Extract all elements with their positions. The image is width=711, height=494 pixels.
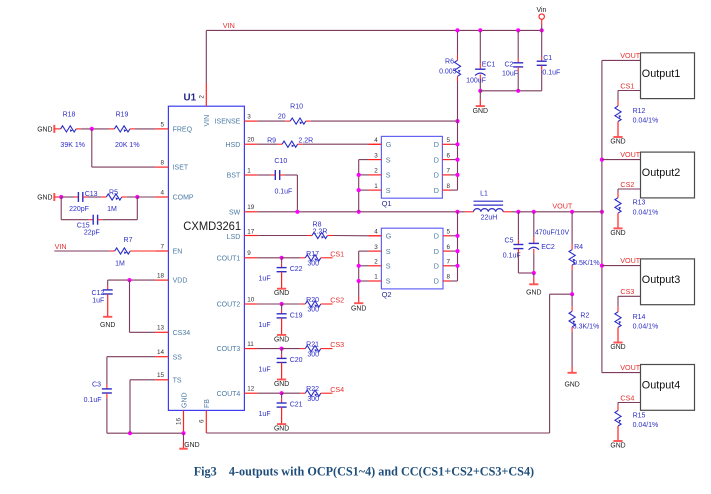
junction bbox=[455, 158, 459, 162]
svg-text:3: 3 bbox=[374, 152, 378, 159]
resistor R20 bbox=[305, 297, 321, 314]
svg-text:15: 15 bbox=[157, 372, 165, 379]
Q2 pin stub bbox=[369, 265, 382, 267]
svg-text:6: 6 bbox=[447, 244, 451, 251]
junction bbox=[280, 302, 284, 306]
wire bbox=[321, 392, 333, 394]
svg-text:L1: L1 bbox=[480, 191, 488, 198]
wire bbox=[457, 82, 459, 121]
svg-text:1uF: 1uF bbox=[259, 322, 271, 329]
svg-text:0.04/1%: 0.04/1% bbox=[633, 209, 659, 216]
pin 12 stub bbox=[244, 392, 257, 394]
title caption bbox=[194, 463, 534, 478]
junction bbox=[478, 89, 482, 93]
junction bbox=[295, 210, 299, 214]
wire (FB net) bbox=[549, 294, 551, 433]
svg-text:22pF: 22pF bbox=[84, 229, 100, 236]
svg-text:12: 12 bbox=[247, 386, 255, 393]
output block Output2 bbox=[641, 152, 695, 198]
junction bbox=[455, 173, 459, 177]
junction bbox=[570, 210, 574, 214]
wire bbox=[517, 71, 519, 90]
wire bbox=[617, 307, 619, 312]
pin 18 stub bbox=[155, 279, 168, 281]
wire bbox=[571, 327, 573, 332]
capacitor C12 bbox=[91, 290, 112, 305]
junction bbox=[600, 264, 604, 268]
ground (under EC2) bbox=[526, 273, 541, 296]
ground (under C20) bbox=[274, 363, 289, 389]
wire bbox=[457, 30, 459, 54]
svg-text:C15: C15 bbox=[77, 222, 90, 229]
output block Output4 bbox=[641, 365, 695, 411]
svg-text:1uF: 1uF bbox=[259, 411, 271, 418]
wire bbox=[479, 63, 481, 69]
junction bbox=[90, 127, 94, 131]
junction bbox=[128, 431, 132, 435]
capacitor C1 bbox=[537, 55, 561, 77]
wire bbox=[60, 197, 62, 220]
wire (Q2 source bus) bbox=[358, 251, 360, 296]
svg-text:CS1: CS1 bbox=[330, 249, 344, 258]
Vin terminal bbox=[536, 7, 546, 25]
wire (Output2 VOUT feed) bbox=[602, 159, 641, 161]
svg-text:D: D bbox=[434, 247, 439, 256]
Q1 pin stub bbox=[369, 174, 382, 176]
wire bbox=[517, 212, 519, 240]
svg-text:G: G bbox=[386, 140, 392, 149]
wire bbox=[281, 304, 283, 310]
wire bbox=[122, 196, 127, 198]
net label CS2 bbox=[330, 296, 344, 305]
svg-text:R2: R2 bbox=[580, 312, 589, 319]
junction bbox=[570, 292, 574, 296]
svg-text:COUT4: COUT4 bbox=[217, 391, 241, 398]
resistor R4 bbox=[569, 244, 600, 267]
svg-text:300: 300 bbox=[307, 351, 319, 358]
wire bbox=[130, 331, 156, 333]
junction bbox=[357, 188, 361, 192]
wire bbox=[54, 128, 60, 130]
svg-text:VOUT: VOUT bbox=[620, 150, 641, 159]
wire bbox=[479, 75, 481, 80]
Q1 gate pin stub bbox=[369, 143, 382, 145]
Q1 pin stub bbox=[442, 189, 450, 191]
junction bbox=[455, 249, 459, 253]
wire (Output4 VOUT feed) bbox=[602, 372, 641, 374]
wire bbox=[206, 29, 541, 31]
svg-text:FB: FB bbox=[204, 399, 211, 408]
wire bbox=[533, 212, 535, 238]
wire bbox=[303, 143, 369, 145]
svg-text:R17: R17 bbox=[306, 251, 319, 258]
wire bbox=[74, 196, 78, 198]
U1 pin name GND (pin 16) bbox=[181, 392, 188, 408]
wire (CS3 sense) bbox=[618, 295, 641, 297]
svg-text:SS: SS bbox=[173, 354, 183, 361]
svg-text:7: 7 bbox=[447, 259, 451, 266]
resistor R14 bbox=[615, 312, 658, 331]
wire bbox=[107, 280, 109, 285]
svg-text:BST: BST bbox=[227, 173, 241, 180]
svg-text:18: 18 bbox=[157, 273, 165, 280]
svg-text:GND: GND bbox=[274, 336, 289, 343]
svg-text:D: D bbox=[434, 277, 439, 286]
net label VOUT (Output1) bbox=[620, 51, 641, 60]
svg-text:C2: C2 bbox=[504, 61, 513, 68]
wire bbox=[457, 55, 459, 61]
U1 pin number 2 bbox=[200, 95, 206, 99]
svg-text:CS4: CS4 bbox=[620, 393, 634, 402]
wire bbox=[617, 405, 619, 410]
wire bbox=[503, 211, 511, 213]
junction bbox=[357, 210, 361, 214]
wire bbox=[109, 128, 114, 130]
junction bbox=[455, 28, 459, 32]
ground (left of R18) bbox=[37, 125, 54, 133]
svg-text:VIN: VIN bbox=[55, 242, 67, 251]
wire bbox=[129, 380, 131, 433]
svg-text:0.005: 0.005 bbox=[439, 68, 457, 75]
wire (VOUT node) bbox=[512, 211, 602, 213]
svg-text:GND: GND bbox=[610, 442, 625, 449]
Q1 pin stub bbox=[442, 159, 450, 161]
wire bbox=[257, 257, 281, 259]
net label CS3 bbox=[620, 287, 634, 296]
resistor R8 bbox=[312, 221, 328, 238]
wire bbox=[136, 197, 138, 220]
ground (under R14) bbox=[610, 327, 625, 351]
transistor Q2 bbox=[381, 228, 443, 299]
wire bbox=[106, 357, 108, 385]
wire bbox=[81, 128, 109, 130]
svg-text:10: 10 bbox=[247, 296, 255, 303]
wire bbox=[571, 245, 573, 250]
svg-text:20: 20 bbox=[278, 114, 286, 121]
svg-text:GND: GND bbox=[181, 392, 188, 408]
wire bbox=[517, 249, 519, 254]
capacitor C3 bbox=[84, 382, 112, 405]
svg-text:C12: C12 bbox=[91, 290, 104, 297]
wire bbox=[281, 399, 283, 403]
wire (CS1 sense) bbox=[618, 90, 641, 92]
Q1 pin stub bbox=[442, 143, 450, 145]
Q1 pin stub bbox=[369, 189, 382, 191]
wire (Output3 VOUT feed) bbox=[602, 265, 641, 267]
svg-text:S: S bbox=[386, 247, 391, 256]
pin 2 stub bbox=[205, 84, 207, 107]
svg-text:1M: 1M bbox=[115, 260, 125, 267]
svg-text:R4: R4 bbox=[574, 244, 583, 251]
junction bbox=[600, 210, 604, 214]
wire bbox=[257, 348, 281, 350]
svg-text:S: S bbox=[386, 262, 391, 271]
resistor R22 bbox=[305, 386, 321, 403]
U1 pin name VIN (pin 2) bbox=[204, 115, 211, 127]
wire bbox=[451, 250, 458, 252]
svg-text:Output1: Output1 bbox=[642, 68, 680, 80]
svg-text:5: 5 bbox=[447, 229, 451, 236]
pin 4 stub bbox=[155, 196, 168, 198]
inductor L1 bbox=[474, 191, 504, 222]
svg-text:D: D bbox=[434, 171, 439, 180]
svg-text:GND: GND bbox=[37, 126, 52, 133]
wire bbox=[87, 196, 101, 198]
junction bbox=[127, 278, 131, 282]
ground (under R2) bbox=[564, 367, 579, 389]
wire bbox=[271, 174, 275, 176]
wire (Q1 drain bus) bbox=[457, 121, 459, 190]
pin 15 stub bbox=[155, 379, 168, 381]
U1 left pin names bbox=[173, 127, 194, 385]
svg-text:SW: SW bbox=[229, 209, 241, 216]
transistor Q1 bbox=[381, 136, 442, 208]
wire bbox=[541, 57, 543, 61]
capacitor C19 bbox=[259, 312, 303, 329]
resistor R13 bbox=[615, 198, 658, 217]
svg-text:R15: R15 bbox=[633, 413, 646, 420]
svg-text:EC1: EC1 bbox=[482, 61, 496, 68]
junction bbox=[516, 28, 520, 32]
wire bbox=[480, 90, 541, 92]
svg-text:14: 14 bbox=[157, 349, 165, 356]
Q1 pin stub bbox=[369, 159, 382, 161]
svg-text:CS2: CS2 bbox=[620, 180, 634, 189]
svg-text:Fig3 4-outputs with OCP(CS1: Fig3 4-outputs with OCP(CS1~4) and CC(CS… bbox=[194, 463, 534, 478]
wire bbox=[130, 379, 155, 381]
svg-text:C1: C1 bbox=[543, 55, 552, 62]
svg-text:R22: R22 bbox=[306, 386, 319, 393]
wire bbox=[281, 263, 283, 267]
wire bbox=[457, 76, 459, 82]
pin 1 stub bbox=[244, 174, 257, 176]
svg-text:2.2R: 2.2R bbox=[313, 229, 328, 236]
svg-text:TS: TS bbox=[173, 377, 182, 384]
junction bbox=[357, 279, 361, 283]
svg-text:C21: C21 bbox=[290, 402, 303, 409]
wire bbox=[617, 189, 619, 193]
net label CS4 bbox=[620, 393, 634, 402]
ground (under EC1) bbox=[473, 91, 488, 115]
svg-text:COUT2: COUT2 bbox=[217, 302, 241, 309]
wire bbox=[281, 258, 283, 264]
wire bbox=[127, 196, 138, 198]
wire bbox=[107, 432, 184, 434]
Q1 pin stub bbox=[442, 174, 450, 176]
wire bbox=[257, 392, 281, 394]
svg-text:300: 300 bbox=[307, 307, 319, 314]
wire bbox=[517, 59, 519, 63]
svg-text:5: 5 bbox=[160, 121, 164, 128]
svg-text:S: S bbox=[386, 155, 391, 164]
svg-text:COUT3: COUT3 bbox=[217, 346, 241, 353]
svg-text:0.04/1%: 0.04/1% bbox=[633, 422, 659, 429]
svg-text:VOUT: VOUT bbox=[620, 363, 641, 372]
capacitor C15 bbox=[77, 215, 100, 237]
svg-text:VOUT: VOUT bbox=[552, 202, 573, 211]
svg-text:8: 8 bbox=[447, 274, 451, 281]
svg-text:1uF: 1uF bbox=[259, 367, 271, 374]
svg-text:GND: GND bbox=[526, 289, 541, 296]
wire (VOUT bus) bbox=[601, 60, 603, 372]
svg-text:GND: GND bbox=[351, 306, 366, 313]
svg-text:20K 1%: 20K 1% bbox=[115, 142, 140, 149]
wire bbox=[300, 257, 305, 259]
svg-text:R8: R8 bbox=[313, 221, 322, 228]
svg-text:3: 3 bbox=[374, 244, 378, 251]
svg-text:ISENSE: ISENSE bbox=[215, 119, 241, 126]
wire bbox=[91, 129, 93, 167]
svg-text:CXMD3261: CXMD3261 bbox=[183, 219, 241, 233]
wire bbox=[281, 393, 283, 399]
svg-text:R9: R9 bbox=[267, 137, 276, 144]
wire bbox=[311, 120, 458, 122]
wire bbox=[571, 294, 573, 306]
resistor R5 bbox=[106, 189, 122, 213]
wire bbox=[92, 166, 156, 168]
output block Output3 bbox=[641, 259, 695, 305]
svg-text:17: 17 bbox=[247, 229, 255, 236]
svg-text:300: 300 bbox=[307, 261, 319, 268]
svg-text:D: D bbox=[434, 155, 439, 164]
wire bbox=[451, 174, 458, 176]
junction bbox=[540, 28, 544, 32]
wire (Q1 source bus) bbox=[358, 160, 360, 212]
svg-text:GND: GND bbox=[610, 230, 625, 237]
wire bbox=[61, 196, 74, 198]
net label VIN bbox=[223, 21, 235, 30]
wire bbox=[285, 120, 290, 122]
junction bbox=[516, 210, 520, 214]
pin 6 stub bbox=[205, 410, 207, 433]
wire (Output1 VOUT feed) bbox=[602, 59, 641, 61]
svg-text:CS3: CS3 bbox=[620, 287, 634, 296]
ground (under R15) bbox=[610, 426, 625, 449]
U1 pin name FB (pin 6) bbox=[204, 399, 211, 408]
svg-text:FREQ: FREQ bbox=[173, 127, 193, 134]
svg-text:13: 13 bbox=[157, 325, 165, 332]
svg-text:11: 11 bbox=[247, 341, 254, 348]
resistor R18 bbox=[60, 112, 85, 150]
svg-text:R13: R13 bbox=[633, 200, 646, 207]
svg-text:CS1: CS1 bbox=[620, 81, 634, 90]
svg-text:3.3K/1%: 3.3K/1% bbox=[573, 323, 599, 330]
svg-text:GND: GND bbox=[274, 290, 289, 297]
svg-text:S: S bbox=[386, 186, 391, 195]
svg-text:10uF: 10uF bbox=[502, 70, 518, 77]
ground (under C19) bbox=[274, 318, 289, 344]
svg-text:EN: EN bbox=[173, 249, 183, 256]
wire bbox=[451, 235, 458, 237]
wire bbox=[106, 393, 108, 399]
junction bbox=[455, 119, 459, 123]
junction bbox=[455, 142, 459, 146]
wire bbox=[205, 30, 207, 83]
pin 7 stub bbox=[155, 250, 168, 252]
Q2 pin stub bbox=[369, 250, 382, 252]
wire bbox=[451, 189, 458, 191]
svg-text:D: D bbox=[434, 140, 439, 149]
wire bbox=[571, 306, 573, 311]
junction bbox=[532, 271, 536, 275]
junction bbox=[516, 89, 520, 93]
wire bbox=[617, 296, 619, 306]
svg-text:LSD: LSD bbox=[227, 234, 241, 241]
svg-text:0.04/1%: 0.04/1% bbox=[633, 324, 659, 331]
wire (FB net) bbox=[206, 432, 549, 434]
wire bbox=[98, 219, 103, 221]
U1 left pin numbers bbox=[157, 121, 165, 379]
svg-text:GND: GND bbox=[473, 108, 488, 115]
wire bbox=[617, 403, 619, 406]
wire bbox=[107, 356, 155, 358]
wire bbox=[277, 143, 282, 145]
junction bbox=[59, 195, 63, 199]
svg-text:D: D bbox=[434, 262, 439, 271]
wire bbox=[517, 253, 519, 273]
wire bbox=[61, 219, 89, 221]
junction bbox=[181, 431, 185, 435]
Q2 pin stub bbox=[443, 280, 451, 282]
svg-text:16: 16 bbox=[176, 417, 183, 425]
wire bbox=[282, 348, 301, 350]
svg-text:C10: C10 bbox=[274, 158, 287, 165]
wire bbox=[298, 143, 303, 145]
svg-text:R14: R14 bbox=[633, 314, 646, 321]
wire bbox=[571, 332, 573, 367]
capacitor EC2 bbox=[529, 230, 570, 251]
svg-text:R10: R10 bbox=[290, 103, 303, 110]
net label VOUT bbox=[552, 202, 573, 211]
svg-text:0.1uF: 0.1uF bbox=[274, 188, 292, 195]
ground (Q2 source) bbox=[351, 297, 366, 313]
wire bbox=[541, 70, 543, 91]
svg-text:VDD: VDD bbox=[173, 278, 188, 285]
wire bbox=[257, 143, 277, 145]
ground (under C21) bbox=[274, 407, 289, 433]
pin 17 stub bbox=[244, 235, 257, 237]
wire bbox=[533, 249, 535, 253]
U1 pin number 6 bbox=[198, 419, 205, 423]
wire bbox=[257, 174, 271, 176]
junction bbox=[280, 391, 284, 395]
svg-text:R6: R6 bbox=[445, 58, 454, 65]
svg-text:GND: GND bbox=[274, 426, 289, 433]
pin 3 stub bbox=[244, 120, 257, 122]
svg-text:R18: R18 bbox=[63, 112, 76, 119]
capacitor C21 bbox=[259, 402, 303, 419]
resistor R17 bbox=[305, 251, 321, 268]
wire bbox=[451, 265, 458, 267]
resistor R21 bbox=[305, 342, 321, 359]
wire bbox=[300, 303, 305, 305]
svg-text:COUT1: COUT1 bbox=[217, 255, 241, 262]
svg-text:VOUT: VOUT bbox=[620, 256, 641, 265]
Q2 gate pin stub bbox=[369, 235, 382, 237]
wire bbox=[83, 196, 88, 198]
svg-text:CS4: CS4 bbox=[330, 385, 344, 394]
wire bbox=[76, 128, 81, 130]
net label CS1 bbox=[620, 81, 634, 90]
svg-text:100uF: 100uF bbox=[466, 77, 486, 84]
svg-text:HSD: HSD bbox=[226, 142, 241, 149]
svg-text:7: 7 bbox=[447, 168, 451, 175]
svg-text:R19: R19 bbox=[116, 112, 129, 119]
junction bbox=[135, 195, 139, 199]
wire bbox=[300, 348, 305, 350]
resistor R15 bbox=[615, 411, 658, 430]
svg-text:6: 6 bbox=[447, 152, 451, 159]
